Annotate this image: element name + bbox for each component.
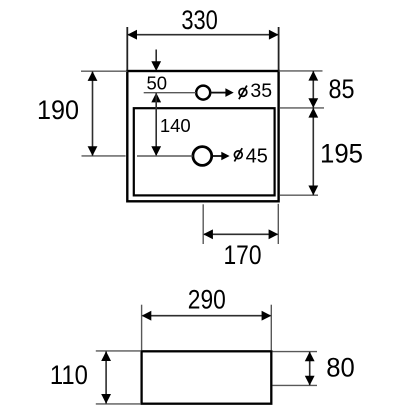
dim 50 lower arrow / dim 140 top arrow — [151, 93, 161, 103]
dim 170: extension lines — [202, 204, 204, 244]
ø35 label — [239, 86, 247, 100]
svg-text:140: 140 — [160, 115, 191, 136]
side view rectangle — [142, 351, 272, 403]
dim 80: dimension line with arrows — [309, 352, 311, 385]
svg-text:35: 35 — [250, 80, 272, 102]
svg-text:85: 85 — [329, 74, 355, 104]
svg-text:80: 80 — [326, 352, 355, 382]
svg-text:45: 45 — [246, 146, 268, 168]
dim 110: extension lines — [96, 350, 141, 352]
dim 290: extension lines — [141, 305, 143, 350]
svg-text:330: 330 — [181, 5, 218, 35]
dim 85 / 195: extension lines right — [279, 70, 323, 72]
dim 190: extension lines — [81, 70, 127, 72]
faucet hole circle ø35 — [196, 86, 210, 100]
svg-text:50: 50 — [147, 72, 168, 93]
dim 290: dimension line with arrows — [143, 315, 271, 317]
dim 190: dimension line with arrows — [92, 72, 94, 156]
dim 80: extension lines — [273, 351, 318, 353]
dim 195: dimension line with arrows — [312, 108, 314, 195]
dim 330: dimension line with arrows — [128, 34, 278, 36]
dim 110: dimension line with arrows — [105, 352, 107, 404]
ø45 leader arrow — [213, 155, 222, 157]
basin outer rectangle — [127, 71, 278, 201]
dim 85: dimension line with arrows — [312, 71, 314, 108]
dim 170: dimension line with arrows — [204, 233, 278, 235]
dim 140: dimension line — [155, 93, 157, 156]
dim 50: stub arrow above top edge — [155, 50, 157, 63]
svg-text:190: 190 — [37, 95, 79, 125]
svg-text:195: 195 — [320, 139, 363, 169]
svg-text:290: 290 — [188, 285, 226, 315]
dim 330: extension lines — [126, 27, 128, 70]
ø35 leader arrow — [210, 92, 226, 94]
basin inner rectangle — [134, 108, 275, 195]
ø35 centerline — [144, 92, 196, 94]
drain hole circle ø45 — [193, 147, 212, 166]
svg-text:110: 110 — [50, 360, 88, 390]
svg-text:170: 170 — [224, 240, 262, 270]
ø45 centerline — [137, 155, 193, 157]
ø45 label — [234, 148, 242, 161]
